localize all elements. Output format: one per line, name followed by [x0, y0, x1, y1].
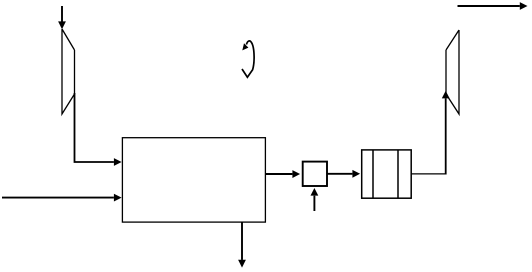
- compressor trapezoid: [62, 29, 75, 114]
- engine rectangle: [122, 138, 265, 222]
- turbine trapezoid: [446, 30, 459, 114]
- wire exchanger to turbine: [411, 173, 446, 175]
- exhaust out arrow top right: [458, 5, 520, 7]
- exchanger inner line left: [372, 150, 374, 198]
- up arrow into valve box: [313, 196, 315, 211]
- arrow valve box to exchanger: [327, 173, 352, 175]
- shaft rotation symbol: [242, 41, 254, 77]
- exchanger inner line right: [397, 150, 399, 198]
- wire compressor to engine: [75, 93, 114, 162]
- arrow engine to valve box: [265, 173, 292, 175]
- down arrow into compressor: [61, 6, 63, 22]
- exhaust down arrow from engine bottom: [241, 222, 243, 260]
- long inlet arrow from left: [2, 197, 114, 199]
- valve box (small square): [303, 162, 327, 186]
- exchanger box with end plates: [362, 150, 412, 198]
